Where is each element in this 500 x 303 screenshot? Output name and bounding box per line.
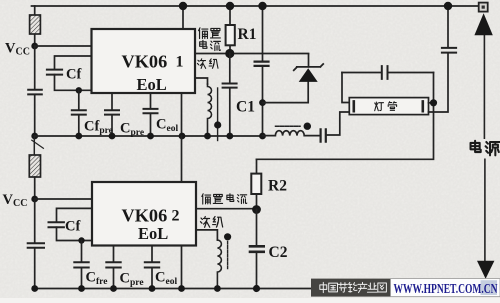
label 偏置/电流 (U1, two lines) — [199, 28, 221, 51]
svg-text:1: 1 — [176, 54, 184, 71]
wire: lamp upper-right to junction — [257, 73, 434, 160]
op-amp U1: IC box VK06 1 — [92, 29, 196, 93]
capacitor on left rail (lower) — [28, 243, 44, 288]
node dot on top bus above U1 — [179, 2, 187, 10]
capacitor: resonant cap across lamp — [342, 66, 434, 79]
node: Cf1 bottom junction — [76, 87, 82, 93]
lamp 灯管 — [349, 98, 428, 115]
wire: U2 bias pin to R2 — [196, 208, 257, 210]
capacitor Cfpre — [72, 90, 86, 136]
wire: U1 bias-current pin to R1 and zener — [195, 53, 309, 55]
op-amp U2: IC box VK06 2 — [92, 182, 196, 246]
label 次级 (U1) — [197, 59, 218, 69]
inductor: ballast choke (horizontal) — [263, 131, 320, 136]
node dots on bottom bus — [78, 285, 185, 292]
wire: bottom ground bus — [35, 288, 311, 290]
svg-text:C2: C2 — [269, 244, 288, 261]
label 偏置电流 (U2) — [202, 194, 247, 204]
resistor R1 — [226, 6, 235, 54]
wire: U2 top pin from bus1 — [181, 136, 183, 182]
node VCC1 junction — [31, 43, 38, 50]
svg-text:R2: R2 — [268, 178, 287, 195]
svg-text:2: 2 — [172, 208, 180, 225]
svg-text:VK06: VK06 — [122, 52, 168, 72]
wire: winding sense line with dot — [214, 88, 221, 141]
capacitor on right feed branch — [429, 6, 457, 112]
capacitor Cpre (lower) — [106, 246, 120, 289]
wire: VCC2 to U2 — [35, 198, 92, 200]
inductor: U1 secondary winding — [208, 84, 212, 136]
banner: white box WWW.HPNET.COM.CN — [391, 279, 500, 297]
power arrow head (up) — [474, 13, 492, 35]
wire: U2 pin direct to bottom bus — [181, 246, 183, 289]
capacitor Ceol (upper) — [144, 93, 158, 136]
capacitor Cfre — [74, 241, 88, 289]
label 电源 — [471, 141, 500, 156]
svg-text:R1: R1 — [238, 26, 257, 43]
zener diode — [263, 54, 324, 103]
wire: U1 secondary pin — [195, 78, 208, 84]
wire: U1 pin direct to bus1 — [181, 93, 183, 136]
svg-text:EoL: EoL — [137, 75, 167, 94]
node: left rail / bus1 — [31, 133, 38, 140]
wire: left rail upper — [34, 46, 36, 89]
resistor R2 — [251, 159, 261, 209]
banner: dark box 中国节能产业网 — [311, 279, 391, 297]
capacitor on R1 branch — [223, 54, 237, 137]
wire: U1 top pin to supply bus — [182, 6, 184, 29]
wire: VCC1 to U1 — [35, 45, 92, 47]
wire: U2 secondary pin — [196, 230, 217, 240]
wire: lamp upper-left feed — [342, 73, 349, 103]
wire: bus1 (mid ground bus) — [35, 135, 263, 137]
svg-text:WWW.HPNET.COM.CN: WWW.HPNET.COM.CN — [394, 281, 498, 296]
resistor (hatched, left mid) — [29, 155, 40, 199]
resistor (hatched, top-left) — [30, 6, 41, 46]
node dots on bus1 — [75, 133, 185, 140]
node VCC2 junction — [31, 196, 38, 203]
capacitor Cpre (upper) — [105, 93, 119, 136]
capacitor Cf (upper) with bracket wiring — [47, 56, 92, 90]
svg-text:C1: C1 — [236, 99, 255, 116]
wire: winding sense dash with dot — [224, 233, 231, 268]
svg-text:Cf: Cf — [65, 219, 80, 235]
capacitor C2 — [250, 210, 264, 289]
wire: power arrow shaft — [483, 33, 486, 262]
capacitor Ceol (lower) — [145, 246, 159, 289]
svg-text:Cf: Cf — [66, 67, 81, 83]
label 次级 (U2) — [200, 217, 222, 228]
power arrow head (down) — [477, 261, 494, 279]
power terminal square — [479, 3, 488, 12]
capacitor C1 branch from top bus — [255, 6, 269, 136]
wire: top supply bus y=6 — [32, 5, 480, 7]
label 灯管 — [375, 102, 397, 111]
wire: left rail lower — [34, 199, 36, 243]
capacitor on left rail (upper) — [28, 90, 42, 136]
svg-text:VK06: VK06 — [122, 206, 168, 226]
inductor: U2 secondary winding — [217, 240, 221, 289]
capacitor (ballast series cap) — [321, 112, 350, 142]
svg-text:EoL: EoL — [138, 224, 168, 243]
wire: choke core dash + dot — [276, 123, 311, 130]
wire: stub + slash to resistor 2 — [32, 136, 44, 155]
capacitor Cf (lower) with bracket wiring — [49, 208, 93, 240]
